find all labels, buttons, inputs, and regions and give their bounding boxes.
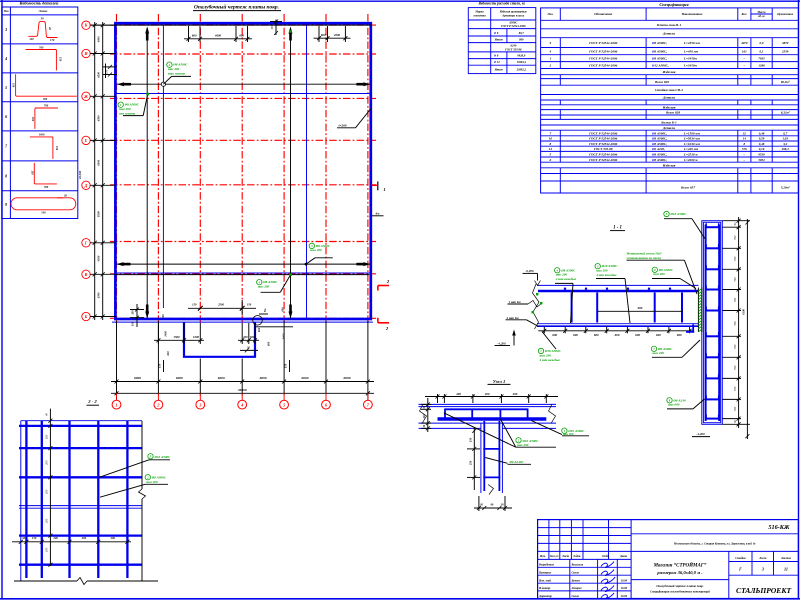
svg-text:4079: 4079: [740, 41, 748, 45]
svg-text:9928,9: 9928,9: [517, 53, 526, 57]
svg-text:13963,4: 13963,4: [517, 60, 527, 64]
svg-text:0,7: 0,7: [783, 131, 787, 135]
plan rebar label 1: [118, 93, 149, 116]
svg-text:150: 150: [59, 57, 63, 62]
plan slab thickness note: [337, 109, 371, 128]
svg-text:Кол.: Кол.: [740, 12, 747, 16]
left edge mini dim upper: [103, 64, 117, 79]
slab rebar label 3 (section): [595, 264, 630, 323]
svg-text:ГОСТ Р 52544-2006: ГОСТ Р 52544-2006: [588, 158, 617, 162]
svg-text:Ø10 А500С: Ø10 А500С: [544, 349, 562, 353]
svg-text:ГОСТ Р 52544-2006: ГОСТ Р 52544-2006: [588, 153, 617, 157]
svg-text:L=4350 мм: L=4350 мм: [683, 41, 701, 45]
right edge 6m note: [372, 211, 384, 216]
svg-text:750: 750: [733, 365, 737, 370]
detail sketch pos.9 (closed stadium loop): [11, 194, 76, 215]
svg-text:2 - 2: 2 - 2: [87, 399, 97, 404]
notch dimension chain left: [154, 314, 204, 356]
svg-text:1500: 1500: [173, 335, 180, 339]
section 1-1 slab top rebar band: [538, 290, 699, 293]
svg-text:30: 30: [500, 502, 504, 506]
svg-text:Лист: Лист: [758, 556, 767, 560]
svg-text:200: 200: [512, 392, 518, 396]
rebar step marks above bottom dims: [158, 360, 290, 372]
svg-text:Ø8 А500С,: Ø8 А500С,: [651, 49, 667, 53]
svg-text:60,9м³: 60,9м³: [781, 80, 790, 84]
svg-text:шаг 200: шаг 200: [653, 272, 665, 276]
title block organization: [736, 586, 791, 595]
detail sketch pos.4 (L-bar): [26, 45, 63, 70]
svg-text:2500: 2500: [217, 303, 224, 307]
svg-text:верх плиты: верх плиты: [168, 71, 186, 75]
wall bottom elevation: [692, 432, 710, 436]
svg-text:200: 200: [484, 392, 490, 396]
svg-text:600: 600: [266, 341, 270, 346]
svg-text:-4,200: -4,200: [696, 432, 705, 436]
svg-text:СТАЛЬПРОЕКТ: СТАЛЬПРОЕКТ: [736, 586, 791, 595]
node 1 column ties: [483, 449, 500, 478]
svg-text:L=1500 мм: L=1500 мм: [683, 131, 701, 135]
node 1 left dim chain: [421, 398, 431, 432]
svg-text:576: 576: [742, 147, 747, 151]
svg-text:11: 11: [784, 567, 788, 572]
bottom dimension chain 6000s: [111, 376, 374, 384]
svg-text:1288: 1288: [758, 63, 765, 67]
svg-text:низ плиты: низ плиты: [119, 111, 136, 115]
bottom axis bubbles 1-7: [112, 400, 372, 409]
top dimension chain left: [184, 26, 252, 42]
svg-text:80,7: 80,7: [519, 31, 525, 35]
plan axis grid vertical (red dash-dot): [117, 14, 368, 324]
svg-text:600: 600: [239, 33, 244, 37]
specification title: [659, 2, 689, 7]
svg-text:Ø 12: Ø 12: [493, 60, 500, 64]
slab rebar label 6: [652, 267, 696, 288]
svg-text:4500: 4500: [97, 255, 101, 262]
svg-text:Плита мон.П-1: Плита мон.П-1: [656, 23, 682, 27]
svg-text:150: 150: [105, 69, 109, 74]
svg-text:5: 5: [5, 85, 7, 90]
svg-text:Ø6 А240: Ø6 А240: [673, 398, 686, 402]
mesh 2-2 rebar label lower: [100, 475, 168, 498]
svg-text:8: 8: [550, 142, 552, 146]
svg-text:700: 700: [44, 185, 49, 189]
svg-text:Изделия: Изделия: [662, 106, 676, 110]
plan span arrow line lower: [117, 262, 371, 266]
details table title: [19, 1, 60, 6]
svg-text:0,16: 0,16: [759, 147, 765, 151]
svg-text:Детали: Детали: [662, 126, 675, 130]
svg-text:700: 700: [39, 45, 44, 49]
bottom dimension total 36000: [111, 388, 374, 401]
svg-text:0,1: 0,1: [760, 49, 764, 53]
svg-text:Изделия: Изделия: [662, 70, 676, 74]
plan axis grid horizontal (red dash-dot): [110, 25, 376, 318]
svg-text:1 шт 6м: 1 шт 6м: [509, 300, 522, 304]
svg-text:30: 30: [422, 424, 426, 428]
svg-text:Г: Г: [84, 240, 88, 245]
svg-text:40,500: 40,500: [78, 170, 82, 180]
left edge mini dim lower: [130, 304, 144, 327]
svg-text:шаг 200: шаг 200: [310, 248, 322, 252]
svg-text:Ведомость деталей: Ведомость деталей: [19, 1, 60, 6]
svg-text:600: 600: [192, 33, 197, 37]
svg-text:ГОСТ Р 52544-2006: ГОСТ Р 52544-2006: [588, 63, 617, 67]
section 1-1 slab bottom face: [537, 324, 699, 327]
top axis extension line: [90, 24, 371, 26]
svg-text:4 шт каждые: 4 шт каждые: [555, 277, 577, 281]
svg-text:700: 700: [44, 104, 49, 108]
title block signatures: [601, 562, 615, 599]
section 1-1 mesh note 2: [506, 316, 539, 327]
svg-text:150: 150: [284, 363, 288, 368]
svg-text:6500: 6500: [97, 159, 101, 165]
svg-text:В: В: [84, 272, 88, 277]
section 1-1 beam stirrups: [572, 293, 682, 323]
section mark 1 right of plan: [372, 182, 386, 192]
plan span arrow line upper: [117, 82, 370, 86]
wall rebar verticals: [706, 225, 720, 422]
svg-text:Ø 8: Ø 8: [493, 53, 499, 57]
svg-text:Изделия: Изделия: [662, 163, 676, 167]
svg-text:2: 2: [549, 63, 552, 67]
svg-text:шаг 600: шаг 600: [668, 403, 680, 407]
svg-text:Магазин “СТРОЙМАГ”: Магазин “СТРОЙМАГ”: [653, 562, 707, 569]
svg-text:ГОСТ Р 52544-2006: ГОСТ Р 52544-2006: [588, 41, 617, 45]
section 1-1 bottom dim chain: [538, 327, 694, 337]
svg-text:Ø6 А240С: Ø6 А240С: [509, 460, 525, 464]
svg-text:250: 250: [468, 460, 472, 466]
svg-text:Кол.уч: Кол.уч: [549, 554, 559, 558]
svg-text:516-КЖ: 516-КЖ: [768, 524, 790, 531]
section 1-1 left slab break: [532, 284, 540, 329]
section mark 2 lower: [378, 318, 389, 331]
svg-text:3: 3: [4, 27, 7, 32]
svg-text:3400: 3400: [164, 331, 168, 338]
svg-text:–: –: [743, 63, 746, 67]
svg-text:208,2: 208,2: [781, 147, 790, 151]
svg-text:750: 750: [733, 235, 737, 240]
svg-text:600: 600: [656, 333, 661, 337]
svg-text:0,9: 0,9: [760, 41, 764, 45]
svg-text:150: 150: [270, 25, 274, 30]
svg-text:6300: 6300: [97, 292, 101, 298]
svg-text:9539: 9539: [758, 153, 765, 157]
svg-text:30: 30: [246, 345, 250, 349]
svg-text:Д: Д: [84, 183, 88, 188]
svg-text:Опалубочный чертеж плиты покр.: Опалубочный чертеж плиты покр.: [656, 583, 704, 588]
svg-text:Изм.: Изм.: [539, 554, 546, 558]
node 1 column break: [488, 485, 494, 495]
section 1-1 transverse bar marks: [564, 288, 671, 290]
top mini vertical dim: [270, 20, 282, 36]
section 1-1 elevation mark top: [523, 269, 541, 285]
svg-text:Детали: Детали: [662, 96, 675, 100]
wall rungs (ties): [705, 223, 720, 418]
svg-text:Всего 829: Всего 829: [654, 80, 669, 84]
svg-text:4: 4: [4, 56, 7, 61]
svg-text:600: 600: [638, 306, 643, 310]
svg-text:-4,200: -4,200: [497, 341, 506, 345]
section 1-1 mesh note 1: [508, 300, 543, 307]
svg-text:150: 150: [30, 170, 34, 175]
svg-text:7: 7: [550, 131, 552, 135]
svg-text:Обозначение: Обозначение: [594, 12, 613, 16]
svg-text:Монтажный уголок 50х5: Монтажный уголок 50х5: [626, 250, 662, 255]
svg-text:Поз: Поз: [3, 9, 10, 13]
svg-text:7935: 7935: [758, 56, 765, 60]
svg-text:Узел 1: Узел 1: [493, 379, 506, 384]
svg-text:Итого: Итого: [494, 38, 504, 42]
svg-text:Бутен: Бутен: [571, 578, 581, 582]
node 1 left slab break: [420, 404, 427, 424]
svg-text:Ø8 А500С,: Ø8 А500С,: [651, 137, 667, 141]
left axis bubbles: [82, 21, 116, 321]
svg-text:9: 9: [5, 202, 7, 207]
svg-text:140: 140: [41, 211, 46, 215]
plan rebar label 4: [257, 273, 292, 292]
section 1-1 slab top face: [537, 284, 699, 286]
svg-text:10.09: 10.09: [621, 586, 628, 590]
svg-text:Стойки мон.СВ-2: Стойки мон.СВ-2: [655, 87, 683, 92]
svg-text:шаг 200: шаг 200: [146, 480, 158, 484]
steel consumption table title: [478, 2, 526, 6]
svg-text:150: 150: [55, 146, 59, 151]
plan title: [193, 3, 281, 10]
svg-text:ГОСТ Р 52544-2006: ГОСТ Р 52544-2006: [500, 24, 526, 28]
svg-text:3,2: 3,2: [782, 142, 787, 146]
plan lower black line with green mark: [116, 273, 369, 276]
svg-text:шаг 200: шаг 200: [596, 269, 608, 273]
steel consumption table: [468, 8, 536, 74]
wall rebar label 7: [651, 340, 700, 357]
svg-text:150: 150: [192, 303, 197, 307]
svg-text:750: 750: [733, 297, 737, 302]
svg-text:809: 809: [519, 38, 524, 42]
svg-text:30: 30: [63, 194, 67, 198]
title block staff rows: [538, 563, 628, 598]
svg-text:Ø8 А500С,: Ø8 А500С,: [651, 131, 667, 135]
svg-text:750: 750: [733, 406, 737, 411]
svg-text:Б: Б: [84, 314, 88, 319]
svg-text:Ø6 А240,: Ø6 А240,: [651, 147, 665, 151]
plan rebar label 2: [163, 62, 191, 84]
mesh 2-2 vertical bars: [26, 421, 127, 578]
svg-text:700: 700: [43, 97, 48, 101]
svg-text:L=420 мм: L=420 мм: [683, 147, 699, 151]
svg-text:200: 200: [455, 392, 461, 396]
svg-text:размером 36,0х40,0 м .: размером 36,0х40,0 м .: [656, 570, 702, 575]
svg-text:Н.контр.: Н.контр.: [538, 586, 551, 590]
svg-text:Ø8 А500С,: Ø8 А500С,: [651, 41, 667, 45]
svg-text:ГОСТ Р 52544-2006: ГОСТ Р 52544-2006: [588, 142, 617, 146]
node 1 right slab break: [549, 404, 556, 424]
svg-text:шаг 200: шаг 200: [563, 432, 574, 436]
svg-text:8500: 8500: [97, 211, 101, 217]
svg-text:Сизов: Сизов: [572, 594, 580, 598]
specification table grid: [541, 8, 799, 193]
svg-text:Спецификация железобетонных ко: Спецификация железобетонных конструкций: [650, 589, 710, 593]
svg-text:6000: 6000: [302, 376, 309, 380]
title block header texts: [539, 554, 628, 558]
svg-text:600: 600: [166, 351, 170, 356]
svg-text:6: 6: [5, 114, 7, 119]
svg-text:Примечание: Примечание: [776, 12, 794, 16]
mounting angle label: [626, 250, 697, 294]
svg-text:-0,050: -0,050: [525, 269, 534, 273]
svg-text:Директор: Директор: [538, 594, 552, 598]
svg-text:2000: 2000: [333, 33, 341, 37]
svg-text:30: 30: [21, 536, 26, 540]
svg-text:200: 200: [52, 536, 58, 540]
svg-text:23892,2: 23892,2: [516, 67, 527, 71]
title block drawing name: [650, 583, 710, 594]
svg-text:4 шт каждые: 4 шт каждые: [595, 273, 617, 277]
svg-text:1000: 1000: [193, 335, 200, 339]
svg-text:0,48: 0,48: [759, 142, 765, 146]
svg-text:–: –: [743, 153, 746, 157]
svg-text:200: 200: [45, 547, 49, 552]
node 1 bottom dim chain: [474, 496, 512, 511]
svg-text:150: 150: [247, 303, 252, 307]
node 1 stirrup hooks: [445, 409, 528, 420]
plan vertical span line 1: [145, 27, 149, 319]
svg-text:Ø 8: Ø 8: [493, 31, 499, 35]
svg-text:4: 4: [549, 49, 552, 53]
svg-text:Ø10 А500С: Ø10 А500С: [601, 264, 619, 268]
mounting angle under slab: [686, 324, 694, 332]
svg-text:устанавливать по месту: устанавливать по месту: [626, 256, 662, 260]
svg-text:L=2200 м: L=2200 м: [683, 158, 698, 162]
svg-text:10.09: 10.09: [621, 594, 628, 598]
svg-text:4 шт каждые: 4 шт каждые: [539, 358, 561, 362]
svg-text:200: 200: [81, 536, 87, 540]
node 1 slab faces: [419, 404, 557, 428]
svg-text:Ø8 А500С: Ø8 А500С: [658, 268, 674, 272]
bottom dimension extension lines: [117, 321, 368, 396]
svg-text:140: 140: [29, 37, 34, 41]
svg-text:200: 200: [45, 518, 49, 523]
svg-text:Ø8 А500С,: Ø8 А500С,: [651, 142, 667, 146]
plan vertical span line 2: [289, 27, 293, 319]
svg-text:Г: Г: [738, 567, 742, 572]
svg-text:Е: Е: [84, 138, 88, 143]
svg-text:32: 32: [742, 131, 747, 135]
wall outer formwork lines: [702, 221, 723, 425]
svg-text:Итого: Итого: [494, 67, 504, 71]
svg-text:1: 1: [264, 309, 267, 314]
svg-text:Всего 828: Всего 828: [665, 111, 680, 115]
svg-text:Васильев: Васильев: [571, 563, 584, 567]
svg-text:3: 3: [549, 41, 552, 45]
svg-text:36000: 36000: [237, 388, 247, 392]
svg-text:750: 750: [733, 321, 737, 326]
svg-text:1 - 1: 1 - 1: [613, 226, 622, 231]
svg-text:Ø8 А500С: Ø8 А500С: [560, 268, 576, 272]
svg-text:ГОСТ Р 52544-2006: ГОСТ Р 52544-2006: [588, 131, 617, 135]
detail sketch pos.7 (step bar): [30, 132, 59, 159]
svg-text:К: К: [84, 23, 88, 28]
section 1-1 title: [610, 226, 625, 231]
svg-text:L=2530 м: L=2530 м: [683, 153, 698, 157]
svg-text:Ø10 А500С: Ø10 А500С: [154, 455, 172, 459]
svg-text:L=450 мм: L=450 мм: [683, 49, 699, 53]
svg-text:Листов: Листов: [780, 556, 792, 560]
svg-text:8: 8: [5, 173, 7, 178]
node 1 rebar label 2: [531, 420, 589, 436]
svg-text:№док.: №док.: [572, 554, 581, 558]
svg-text:6,32м³: 6,32м³: [781, 111, 790, 115]
svg-text:30: 30: [479, 502, 483, 506]
node 1 column dim chain: [467, 427, 480, 490]
slab rebar label 4: [555, 268, 577, 323]
mesh 2-2 rebar label upper: [99, 454, 171, 478]
svg-text:5: 5: [550, 153, 552, 157]
svg-text:Московская область, г. Старая: Московская область, г. Старая Купавна, у…: [673, 542, 756, 546]
node 1 top dimension chain: [425, 392, 558, 403]
svg-text:750: 750: [733, 256, 737, 261]
mesh 2-2 horizontal bars: [19, 426, 142, 565]
svg-text:200: 200: [45, 460, 49, 465]
svg-text:150: 150: [158, 363, 162, 368]
mesh 2-2 outline thin lines: [21, 421, 142, 581]
svg-text:Проверил: Проверил: [538, 570, 552, 574]
svg-text:Поз.: Поз.: [547, 12, 554, 16]
plan slab border (blue): [115, 23, 370, 319]
svg-text:–: –: [743, 158, 746, 162]
svg-text:150: 150: [130, 310, 134, 315]
svg-text:200: 200: [110, 536, 116, 540]
svg-text:1400: 1400: [39, 132, 45, 136]
svg-text:750: 750: [733, 277, 737, 282]
detail sketch pos.3 (hat profile): [28, 17, 57, 43]
svg-text:750: 750: [733, 386, 737, 391]
plan slab notch (blue): [184, 322, 255, 357]
svg-text:5,29м³: 5,29м³: [781, 185, 790, 189]
svg-text:600: 600: [615, 333, 620, 337]
svg-text:40: 40: [48, 26, 52, 30]
svg-text:Ø10 А500С: Ø10 А500С: [670, 212, 688, 216]
node 1 top rebar bar: [445, 408, 528, 410]
svg-text:600: 600: [573, 333, 578, 337]
svg-text:Стадия: Стадия: [735, 556, 746, 560]
svg-text:Дата: Дата: [619, 554, 628, 558]
svg-text:ГОСТ 535-88: ГОСТ 535-88: [504, 47, 522, 51]
svg-text:Детали: Детали: [662, 32, 675, 36]
svg-text:300: 300: [31, 116, 35, 122]
svg-text:1: 1: [550, 56, 552, 60]
svg-text:200: 200: [242, 335, 248, 339]
svg-text:4600: 4600: [214, 33, 222, 37]
svg-text:4000: 4000: [97, 36, 101, 43]
svg-text:ГОСТ 535-88: ГОСТ 535-88: [593, 147, 613, 151]
svg-text:шаг 200: шаг 200: [653, 351, 665, 355]
svg-text:0,59: 0,59: [759, 137, 765, 141]
title block grid: [538, 520, 799, 599]
svg-text:шаг 200: шаг 200: [517, 443, 529, 447]
section 1-1 elevation mark bottom: [495, 330, 516, 346]
svg-text:6000: 6000: [343, 376, 350, 380]
svg-text:6500: 6500: [97, 115, 101, 121]
svg-text:2559: 2559: [781, 49, 789, 53]
svg-text:4200: 4200: [742, 309, 746, 317]
svg-text:600: 600: [594, 333, 599, 337]
notch dimension chain right: [238, 307, 293, 353]
svg-text:6000: 6000: [218, 376, 225, 380]
svg-text:Арматура класса: Арматура класса: [501, 14, 525, 18]
wall-slab joint hatch strip: [698, 288, 701, 333]
node-1 reference on plan: [253, 309, 268, 325]
